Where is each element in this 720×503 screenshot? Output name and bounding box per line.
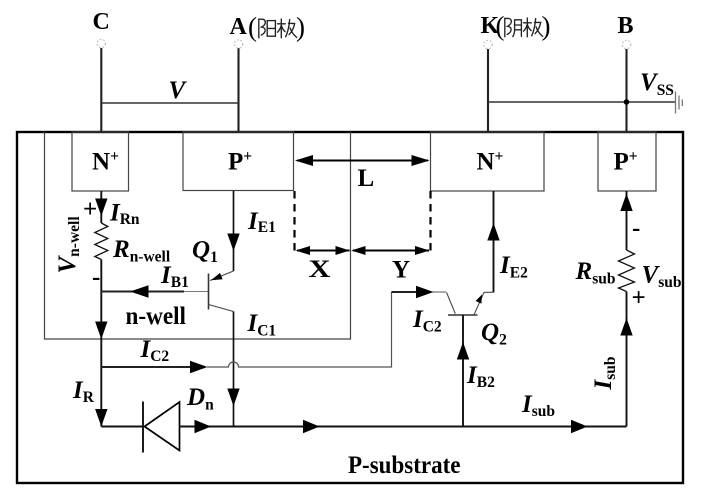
svg-text:+: + (83, 196, 97, 223)
svg-text:-: - (92, 264, 100, 291)
svg-text:V: V (169, 77, 188, 104)
svg-text:B: B (618, 13, 634, 39)
svg-text:Y: Y (392, 257, 410, 284)
svg-text:C: C (93, 9, 110, 35)
svg-text:P-substrate: P-substrate (348, 452, 461, 479)
svg-text:L: L (358, 165, 375, 192)
svg-text:A: A (230, 14, 248, 40)
svg-text:-: - (632, 215, 640, 242)
svg-text:n-well: n-well (126, 303, 187, 330)
svg-text:(: ( (496, 11, 505, 41)
svg-text:X: X (309, 256, 331, 283)
svg-text:+: + (632, 285, 646, 312)
svg-text:(: ( (248, 12, 257, 42)
